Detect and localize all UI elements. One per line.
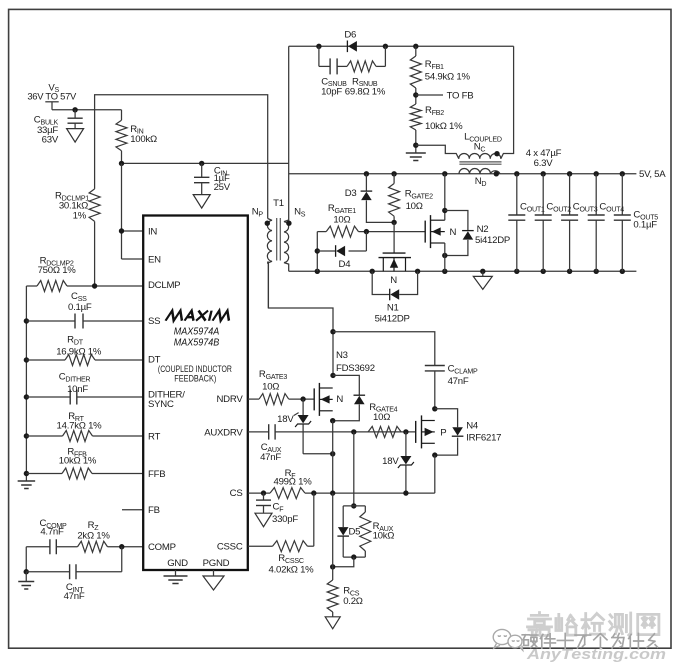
svg-text:47nF: 47nF [260, 452, 281, 463]
svg-text:IRF6217: IRF6217 [466, 433, 501, 444]
svg-text:SYNC: SYNC [148, 399, 174, 410]
svg-text:18V: 18V [277, 414, 294, 425]
svg-text:DCLMP: DCLMP [148, 280, 180, 291]
svg-text:N3: N3 [336, 350, 348, 361]
svg-text:CSSC: CSSC [217, 542, 243, 553]
svg-text:10Ω: 10Ω [262, 381, 279, 392]
svg-text:D3: D3 [345, 188, 357, 199]
svg-text:2kΩ 1%: 2kΩ 1% [77, 530, 110, 541]
svg-text:6.3V: 6.3V [534, 158, 554, 169]
svg-text:5i412DP: 5i412DP [475, 235, 510, 246]
svg-text:N4: N4 [466, 421, 479, 432]
svg-text:10nF: 10nF [67, 384, 88, 395]
svg-text:GND: GND [167, 558, 188, 569]
svg-text:N: N [450, 227, 457, 238]
svg-text:TO FB: TO FB [447, 90, 474, 101]
svg-text:MAX5974B: MAX5974B [174, 338, 220, 349]
svg-text:330pF: 330pF [272, 514, 298, 525]
svg-text:4.7nF: 4.7nF [40, 527, 64, 538]
svg-text:D5: D5 [349, 527, 361, 538]
svg-text:PGND: PGND [203, 558, 230, 569]
svg-text:D6: D6 [344, 29, 356, 40]
svg-text:18V: 18V [382, 456, 399, 467]
svg-text:10kΩ 1%: 10kΩ 1% [59, 455, 97, 466]
svg-text:10kΩ 1%: 10kΩ 1% [425, 121, 463, 132]
svg-text:IN: IN [148, 226, 157, 237]
svg-text:RT: RT [148, 431, 161, 442]
svg-text:D4: D4 [339, 259, 352, 270]
svg-text:5i412DP: 5i412DP [375, 313, 410, 324]
svg-text:COMP: COMP [148, 542, 176, 553]
svg-text:100kΩ: 100kΩ [130, 134, 157, 145]
svg-text:AnyTesting.com: AnyTesting.com [526, 647, 666, 663]
svg-text:T1: T1 [273, 198, 284, 209]
svg-text:FDS3692: FDS3692 [336, 363, 375, 374]
svg-text:MAX5974A: MAX5974A [174, 326, 220, 337]
svg-text:CS: CS [230, 488, 243, 499]
svg-text:36V TO 57V: 36V TO 57V [27, 90, 77, 101]
svg-text:FB: FB [148, 505, 160, 516]
svg-text:FFB: FFB [148, 469, 165, 480]
svg-text:0.1µF: 0.1µF [633, 219, 657, 230]
svg-text:69.8Ω 1%: 69.8Ω 1% [345, 87, 386, 98]
svg-text:10Ω: 10Ω [333, 214, 350, 225]
svg-text:16.9kΩ 1%: 16.9kΩ 1% [56, 346, 102, 357]
svg-text:EN: EN [148, 254, 161, 265]
svg-text:10kΩ: 10kΩ [373, 531, 395, 542]
svg-text:AUXDRV: AUXDRV [204, 427, 243, 438]
svg-text:N2: N2 [477, 224, 489, 235]
svg-text:10pF: 10pF [321, 87, 342, 98]
svg-text:499Ω 1%: 499Ω 1% [274, 476, 313, 487]
svg-text:25V: 25V [214, 182, 231, 193]
svg-text:0.2Ω: 0.2Ω [343, 596, 363, 607]
svg-text:63V: 63V [42, 134, 59, 145]
svg-text:5V, 5A: 5V, 5A [639, 169, 666, 180]
svg-text:N: N [390, 275, 397, 286]
svg-text:10Ω: 10Ω [406, 201, 423, 212]
svg-text:4.02kΩ 1%: 4.02kΩ 1% [269, 564, 315, 575]
svg-text:750Ω 1%: 750Ω 1% [38, 265, 77, 276]
svg-text:54.9kΩ 1%: 54.9kΩ 1% [425, 72, 471, 83]
svg-text:47nF: 47nF [64, 591, 85, 602]
svg-text:N1: N1 [387, 302, 399, 313]
svg-text:FEEDBACK): FEEDBACK) [174, 373, 216, 384]
svg-text:NDRV: NDRV [216, 394, 243, 405]
svg-text:N: N [336, 394, 343, 405]
svg-text:0.1µF: 0.1µF [68, 302, 92, 313]
svg-text:1%: 1% [73, 210, 87, 221]
svg-text:10Ω: 10Ω [373, 412, 390, 423]
svg-text:47nF: 47nF [448, 376, 469, 387]
svg-text:SS: SS [148, 316, 160, 327]
svg-text:P: P [440, 427, 446, 438]
svg-text:14.7kΩ 1%: 14.7kΩ 1% [57, 420, 103, 431]
